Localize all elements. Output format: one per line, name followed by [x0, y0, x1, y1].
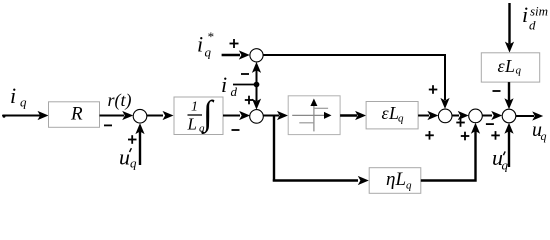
svg-text:η: η [386, 169, 395, 190]
plus sign at S1 bottom input [128, 135, 137, 144]
svg-text:d: d [529, 18, 536, 33]
summer S2 [250, 110, 264, 124]
block epsilon Lq (middle) [366, 102, 418, 129]
node u'_q label (right) [492, 145, 509, 173]
wire epsilon-Lq to SA [418, 111, 438, 120]
junction dot i_d [254, 82, 260, 88]
svg-text:d: d [231, 84, 238, 99]
node i_d label [221, 72, 238, 99]
relay block (bang-bang characteristic) [288, 96, 340, 135]
svg-text:q: q [130, 156, 137, 171]
svg-text:L: L [187, 115, 197, 134]
svg-text:R: R [70, 104, 83, 125]
wire top epsilon-Lq down into SC [504, 82, 513, 109]
wire feedback bottom into eta-Lq block [273, 176, 369, 185]
wire SA to SB [452, 111, 469, 120]
svg-text:q: q [20, 95, 27, 110]
wire i_d into junction [233, 84, 257, 86]
svg-text:L: L [395, 169, 407, 190]
plus sign at SB bottom input [461, 132, 470, 141]
node u'_q label (left) [119, 145, 137, 171]
integrator block 1/Lq [174, 93, 223, 134]
wire i*_q into upper summer [222, 50, 250, 59]
svg-text:q: q [516, 65, 522, 77]
minus sign at SC top input [493, 90, 501, 92]
node i_d^sim input label [522, 2, 548, 33]
svg-text:sim: sim [530, 4, 548, 19]
wire relay to epsilon-Lq block [340, 111, 366, 120]
minus sign at summer S2 left input [232, 129, 240, 131]
svg-text:i: i [221, 72, 227, 97]
wire u'_q up into SC [504, 123, 513, 167]
summer SB [469, 109, 483, 123]
wire feedback tap down [273, 116, 275, 182]
wire SB to SC [482, 111, 502, 120]
plus sign at S2 top input [245, 96, 254, 105]
wire u'_q up into S1 [135, 123, 144, 165]
plus sign at SB left input [456, 118, 465, 127]
wire S2 to relay block with feedback tap [263, 111, 288, 120]
minus sign at summer S1 left input [104, 124, 112, 126]
block eta Lq [369, 168, 421, 194]
svg-text:i: i [522, 2, 528, 27]
plus sign at upper summer left input [230, 39, 239, 48]
block epsilon Lq (top right) [481, 53, 539, 82]
svg-text:*: * [207, 29, 214, 44]
summer S1 [133, 109, 147, 123]
minus sign at SC left input [486, 123, 494, 125]
node u_q output label [532, 119, 547, 143]
svg-text:i: i [197, 32, 203, 57]
svg-text:L: L [504, 56, 515, 76]
svg-text:i: i [10, 83, 16, 108]
minus sign at upper summer bottom input [241, 73, 249, 75]
summer SC [502, 109, 516, 123]
wire R to S1 [100, 111, 134, 120]
svg-text:q: q [541, 129, 547, 143]
svg-text:q: q [406, 180, 412, 192]
svg-text:q: q [398, 113, 404, 125]
wire eta-Lq output up into SB [421, 123, 480, 181]
wire integrator to S2 [223, 111, 250, 120]
plus sign at SA top input [429, 85, 438, 94]
resistor block R [49, 102, 100, 128]
plus sign at SC bottom input [491, 131, 500, 140]
summer SA [438, 109, 452, 123]
wire i_d branch vertical between summers [252, 62, 261, 110]
wire i_d^sim down into top epsilon-Lq block [505, 3, 514, 53]
wire upper summer across top and down into SA [263, 55, 450, 109]
wire i_q input into R [3, 111, 49, 120]
node i*_q reference label [197, 29, 214, 60]
wire S1 to integrator block [147, 111, 174, 120]
node i_q input label [10, 83, 27, 110]
plus sign at SA left input [425, 131, 434, 140]
svg-text:q: q [502, 158, 509, 173]
svg-text:1: 1 [191, 100, 198, 115]
svg-text:r(t): r(t) [108, 90, 132, 111]
summer S-up [250, 49, 263, 62]
svg-text:q: q [205, 45, 212, 60]
wire SC output u_q [516, 111, 543, 120]
svg-text:u: u [119, 145, 130, 170]
